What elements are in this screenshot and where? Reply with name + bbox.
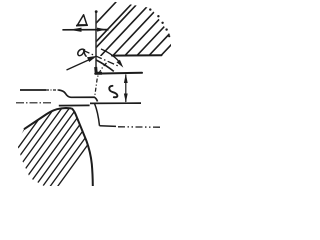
crack line (dash-dot from alpha to lower right) [83,50,120,67]
lower blade hatching [0,90,128,190]
sheet bottom line (center) [59,104,90,106]
lower arc stroke at blade step [96,60,114,71]
dimension S line [125,75,127,103]
alpha leader arrow [67,58,95,71]
dimension Delta left arrowhead [69,28,81,32]
lower blade right edge [72,108,93,186]
alpha dimension arc with arrowhead [101,49,121,64]
upper blade hatch boundary mask (staircase top-right) [110,0,171,36]
upper blade bottom edge (lower step) [95,72,142,75]
hatch end dots (top block staircase) [149,8,170,37]
upper blade hatching [66,0,238,56]
crack curve (steep dash-dot below corner) [95,63,107,96]
dimension Delta right arrowhead [97,28,107,32]
cut piece line right [100,125,117,128]
cut piece dash-dot extension [118,126,161,128]
label Delta (triangle) [78,15,87,25]
dimension Delta line [62,29,108,31]
dimension S top arrowhead [124,74,128,83]
sheet left part top surface [20,89,46,91]
lower blade top edge outline [24,108,72,129]
upper blade vertical cutting edge [95,11,97,74]
upper blade bottom edge (upper step) [112,54,162,56]
sheet bottom line (right) [90,102,141,104]
sheet bottom dash-dot (left) [16,102,53,104]
label S (rotated) [109,86,117,97]
dimension S bottom arrowhead [124,94,128,103]
sheared edge right (steep drop) [95,103,100,125]
label alpha [78,49,86,56]
upper blade corner [96,67,102,73]
